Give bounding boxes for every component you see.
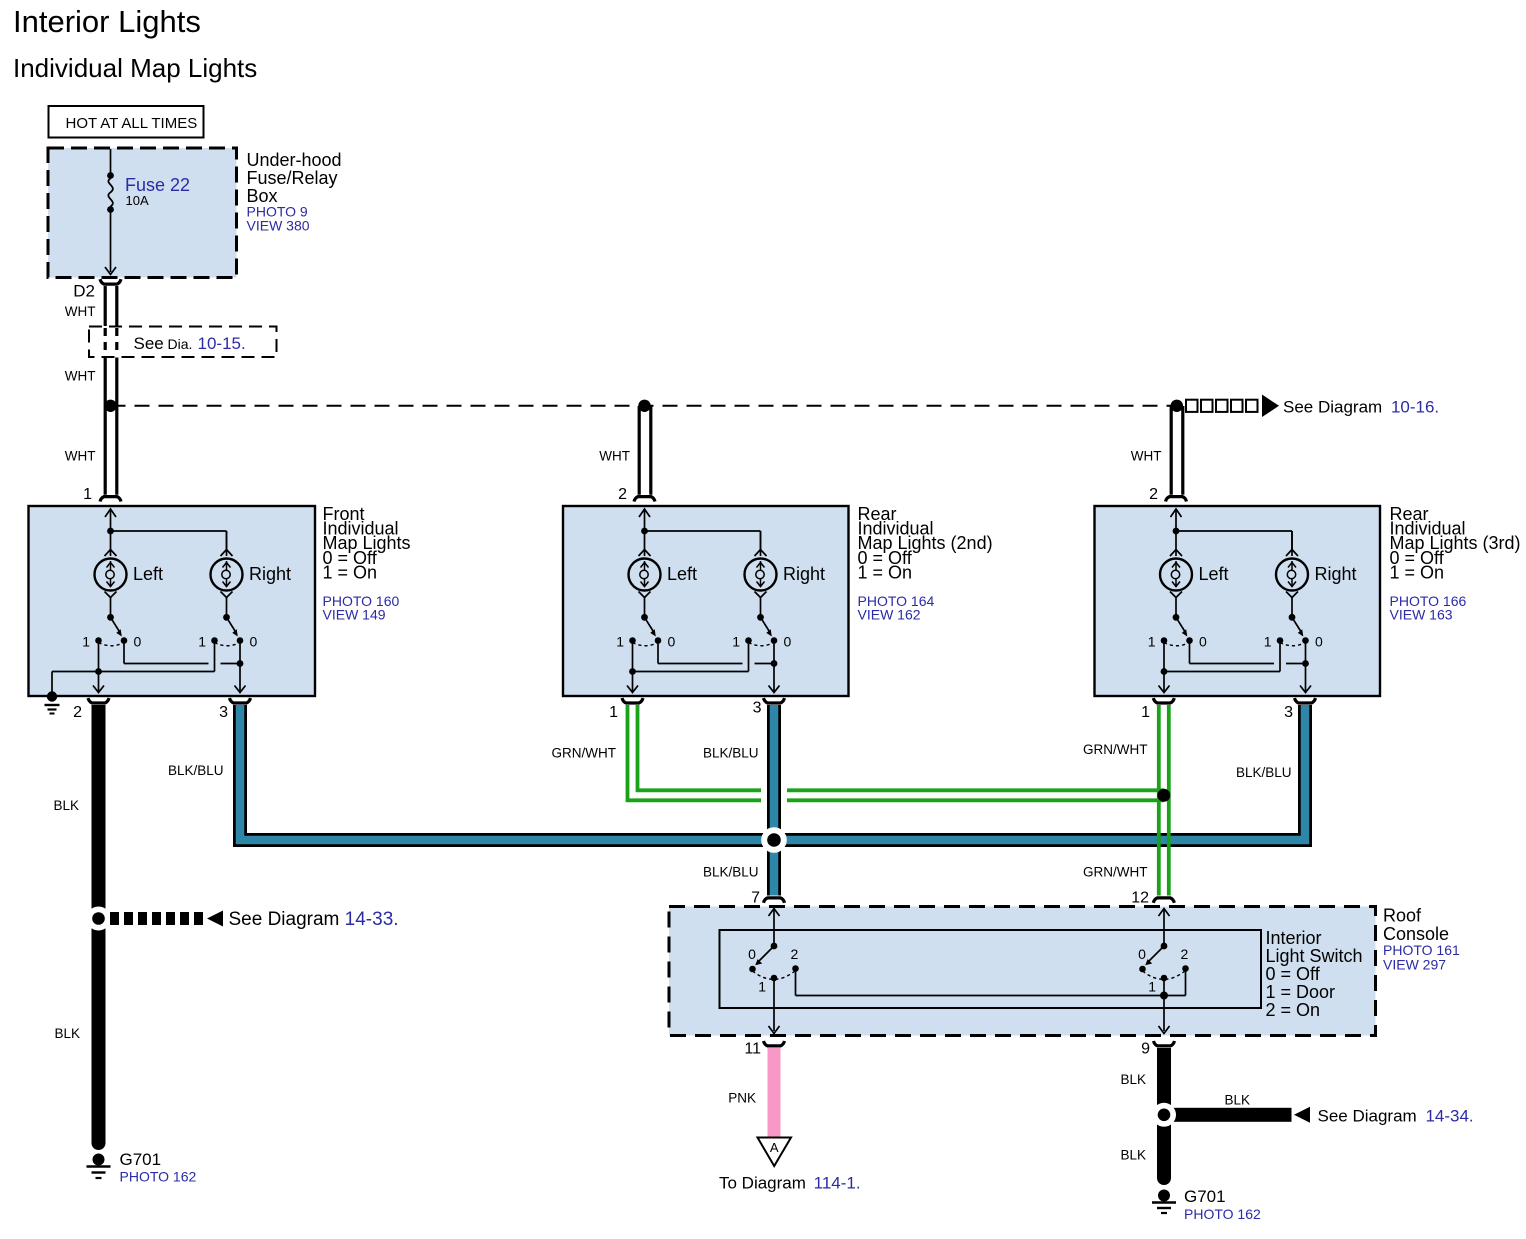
svg-text:VIEW 149: VIEW 149 xyxy=(323,607,386,623)
svg-text:3: 3 xyxy=(219,704,228,721)
svg-text:Light Switch: Light Switch xyxy=(1266,946,1363,966)
svg-text:VIEW 163: VIEW 163 xyxy=(1390,607,1453,623)
svg-text:Roof: Roof xyxy=(1383,906,1422,926)
svg-text:0: 0 xyxy=(748,946,756,962)
svg-text:Left: Left xyxy=(667,564,697,584)
svg-text:BLK/BLU: BLK/BLU xyxy=(168,763,224,778)
svg-text:BLK: BLK xyxy=(54,1026,80,1041)
svg-text:Individual Map Lights: Individual Map Lights xyxy=(13,53,257,83)
svg-text:VIEW 380: VIEW 380 xyxy=(247,218,310,234)
svg-text:VIEW 297: VIEW 297 xyxy=(1383,957,1446,973)
svg-text:1 = On: 1 = On xyxy=(858,562,913,582)
svg-text:BLK: BLK xyxy=(1120,1148,1146,1163)
svg-text:10-15.: 10-15. xyxy=(198,334,246,353)
svg-text:WHT: WHT xyxy=(1131,449,1162,464)
svg-text:See Diagram 10-16.: See Diagram 10-16. xyxy=(1283,398,1439,417)
svg-text:1 = On: 1 = On xyxy=(323,562,378,582)
svg-text:WHT: WHT xyxy=(65,304,96,319)
svg-text:10A: 10A xyxy=(126,193,149,208)
svg-text:Fuse/Relay: Fuse/Relay xyxy=(247,168,338,188)
svg-text:HOT AT ALL TIMES: HOT AT ALL TIMES xyxy=(66,115,198,132)
svg-text:BLK/BLU: BLK/BLU xyxy=(1236,765,1292,780)
svg-text:Fuse 22: Fuse 22 xyxy=(125,175,190,195)
svg-text:See Diagram 14-34.: See Diagram 14-34. xyxy=(1318,1107,1474,1126)
svg-text:1: 1 xyxy=(1141,704,1150,721)
svg-text:PNK: PNK xyxy=(728,1091,756,1106)
svg-text:Left: Left xyxy=(1199,564,1229,584)
svg-text:WHT: WHT xyxy=(65,369,96,384)
svg-text:BLK: BLK xyxy=(53,798,79,813)
svg-text:Under-hood: Under-hood xyxy=(247,150,342,170)
svg-text:WHT: WHT xyxy=(65,449,96,464)
svg-text:To Diagram 114-1.: To Diagram 114-1. xyxy=(719,1174,861,1193)
svg-text:G701: G701 xyxy=(1184,1187,1226,1206)
svg-text:2 = On: 2 = On xyxy=(1266,1000,1321,1020)
svg-text:0 = Off: 0 = Off xyxy=(1266,964,1321,984)
svg-text:Interior: Interior xyxy=(1266,928,1322,948)
svg-text:1: 1 xyxy=(758,979,766,995)
svg-text:BLK: BLK xyxy=(1225,1093,1251,1108)
svg-text:1: 1 xyxy=(609,704,618,721)
svg-text:11: 11 xyxy=(744,1041,761,1058)
svg-text:PHOTO 162: PHOTO 162 xyxy=(1184,1206,1261,1222)
svg-text:7: 7 xyxy=(751,890,760,907)
svg-text:WHT: WHT xyxy=(599,449,630,464)
svg-text:BLK/BLU: BLK/BLU xyxy=(703,746,759,761)
svg-text:12: 12 xyxy=(1131,890,1149,907)
svg-text:Interior Lights: Interior Lights xyxy=(13,4,201,39)
svg-text:Dia.: Dia. xyxy=(168,336,193,352)
svg-text:Right: Right xyxy=(1315,564,1357,584)
svg-text:BLK: BLK xyxy=(1120,1072,1146,1087)
svg-text:BLK/BLU: BLK/BLU xyxy=(703,865,759,880)
svg-text:GRN/WHT: GRN/WHT xyxy=(552,746,617,761)
svg-text:9: 9 xyxy=(1141,1041,1150,1058)
svg-text:VIEW 162: VIEW 162 xyxy=(858,607,921,623)
svg-text:2: 2 xyxy=(618,486,627,503)
svg-text:PHOTO 162: PHOTO 162 xyxy=(120,1169,197,1185)
svg-text:3: 3 xyxy=(1284,704,1293,721)
svg-text:GRN/WHT: GRN/WHT xyxy=(1083,742,1148,757)
svg-text:Console: Console xyxy=(1383,924,1449,944)
svg-text:Left: Left xyxy=(133,564,163,584)
svg-text:Right: Right xyxy=(783,564,825,584)
svg-text:Right: Right xyxy=(249,564,291,584)
svg-text:1 = On: 1 = On xyxy=(1390,562,1445,582)
svg-text:See: See xyxy=(134,334,164,353)
svg-text:A: A xyxy=(770,1140,779,1155)
svg-text:1 = Door: 1 = Door xyxy=(1266,982,1336,1002)
svg-text:1: 1 xyxy=(83,486,92,503)
svg-text:D2: D2 xyxy=(73,282,95,301)
svg-text:See Diagram 14-33.: See Diagram 14-33. xyxy=(229,909,399,930)
svg-text:G701: G701 xyxy=(120,1150,162,1169)
svg-text:2: 2 xyxy=(1149,486,1158,503)
svg-text:GRN/WHT: GRN/WHT xyxy=(1083,865,1148,880)
svg-text:2: 2 xyxy=(73,704,82,721)
svg-text:2: 2 xyxy=(791,946,799,962)
svg-text:3: 3 xyxy=(753,700,762,717)
